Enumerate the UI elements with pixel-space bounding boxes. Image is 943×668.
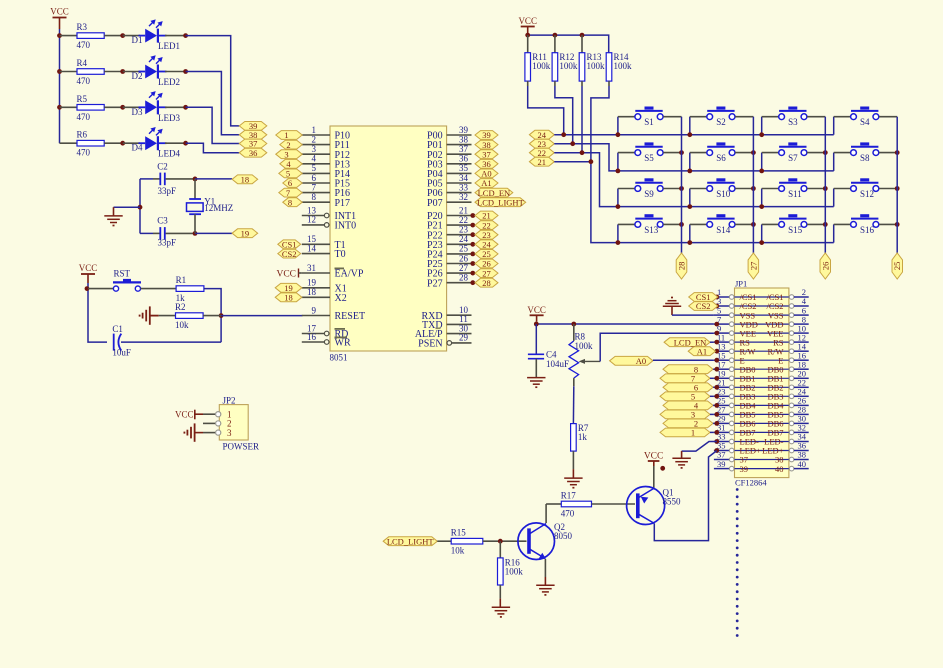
svg-text:S11: S11 <box>788 189 802 199</box>
svg-text:JP2: JP2 <box>223 395 236 405</box>
svg-text:S9: S9 <box>644 189 654 199</box>
svg-text:T0: T0 <box>335 249 346 260</box>
svg-text:100k: 100k <box>614 61 633 71</box>
svg-text:28: 28 <box>677 262 687 271</box>
svg-text:22: 22 <box>459 215 468 225</box>
svg-text:10k: 10k <box>451 546 465 556</box>
svg-text:P17: P17 <box>335 198 351 209</box>
svg-text:18: 18 <box>284 293 293 303</box>
svg-text:39: 39 <box>482 130 491 140</box>
svg-text:21: 21 <box>482 211 491 221</box>
svg-text:6: 6 <box>312 173 317 183</box>
svg-text:R15: R15 <box>451 528 467 538</box>
svg-text:35: 35 <box>459 163 469 173</box>
svg-text:39: 39 <box>459 125 469 135</box>
svg-text:C1: C1 <box>112 324 123 334</box>
svg-text:C2: C2 <box>157 162 168 172</box>
svg-text:S6: S6 <box>716 153 726 163</box>
svg-text:1: 1 <box>312 125 317 135</box>
svg-text:100k: 100k <box>532 61 551 71</box>
svg-text:24: 24 <box>459 234 469 244</box>
svg-text:R2: R2 <box>175 302 186 312</box>
svg-text:25: 25 <box>482 249 491 259</box>
svg-text:34: 34 <box>459 173 469 183</box>
svg-text:S10: S10 <box>716 189 731 199</box>
svg-text:100k: 100k <box>575 341 594 351</box>
svg-text:R3: R3 <box>77 22 88 32</box>
svg-text:CS2: CS2 <box>696 301 711 311</box>
svg-text:8550: 8550 <box>663 496 682 506</box>
svg-text:16: 16 <box>307 332 317 342</box>
svg-text:S15: S15 <box>788 225 803 235</box>
svg-text:27: 27 <box>748 262 758 271</box>
svg-text:A1: A1 <box>697 346 707 356</box>
svg-text:22: 22 <box>482 220 491 230</box>
svg-text:37: 37 <box>482 149 491 159</box>
svg-text:18: 18 <box>241 175 250 185</box>
svg-text:27: 27 <box>482 268 491 278</box>
svg-text:470: 470 <box>77 40 91 50</box>
svg-text:1: 1 <box>691 428 695 438</box>
svg-text:470: 470 <box>77 112 91 122</box>
svg-text:S16: S16 <box>860 225 875 235</box>
svg-text:24: 24 <box>482 240 491 250</box>
svg-text:D4: D4 <box>132 143 143 153</box>
svg-text:S13: S13 <box>644 225 659 235</box>
svg-text:WR: WR <box>335 338 351 349</box>
svg-text:33pF: 33pF <box>158 237 177 247</box>
svg-text:470: 470 <box>77 76 91 86</box>
svg-text:CF12864: CF12864 <box>735 478 767 488</box>
svg-text:36: 36 <box>459 154 469 164</box>
svg-text:7: 7 <box>286 188 290 198</box>
svg-text:32: 32 <box>459 192 468 202</box>
svg-text:VCC: VCC <box>50 7 69 17</box>
svg-text:X2: X2 <box>335 293 347 304</box>
svg-text:36: 36 <box>249 148 258 158</box>
svg-text:VCC: VCC <box>527 305 546 315</box>
svg-text:A0: A0 <box>636 356 646 366</box>
svg-text:LED2: LED2 <box>158 77 180 87</box>
svg-text:8050: 8050 <box>554 531 573 541</box>
svg-text:25: 25 <box>459 244 469 254</box>
svg-text:R17: R17 <box>561 491 577 501</box>
svg-text:VCC: VCC <box>644 452 664 462</box>
svg-text:19: 19 <box>284 283 293 293</box>
svg-text:C4: C4 <box>546 349 557 359</box>
svg-text:21: 21 <box>538 157 547 167</box>
svg-text:100k: 100k <box>505 566 524 576</box>
svg-text:31: 31 <box>307 263 316 273</box>
svg-text:S2: S2 <box>716 117 726 127</box>
svg-text:A1: A1 <box>481 178 491 188</box>
svg-text:10uF: 10uF <box>112 347 131 357</box>
svg-text:470: 470 <box>77 148 91 158</box>
svg-text:39: 39 <box>740 464 749 474</box>
svg-text:8051: 8051 <box>330 353 348 363</box>
svg-text:3: 3 <box>227 428 232 438</box>
svg-text:27: 27 <box>459 263 469 273</box>
svg-text:33: 33 <box>459 182 469 192</box>
svg-text:POWSER: POWSER <box>223 442 260 452</box>
svg-text:R4: R4 <box>77 58 88 68</box>
svg-text:PSEN: PSEN <box>418 339 442 350</box>
svg-text:D3: D3 <box>132 107 143 117</box>
svg-text:12MHZ: 12MHZ <box>204 203 233 213</box>
svg-text:19: 19 <box>307 278 317 288</box>
svg-text:CS2: CS2 <box>282 249 297 259</box>
svg-text:VCC: VCC <box>276 270 296 280</box>
svg-text:26: 26 <box>820 262 830 271</box>
svg-text:23: 23 <box>482 230 491 240</box>
svg-text:1: 1 <box>284 130 288 140</box>
svg-text:RST: RST <box>114 269 131 279</box>
svg-text:21: 21 <box>459 205 468 215</box>
svg-text:26: 26 <box>459 253 469 263</box>
svg-text:EA/VP: EA/VP <box>335 269 364 280</box>
svg-text:S7: S7 <box>788 153 798 163</box>
svg-text:40: 40 <box>798 459 807 469</box>
svg-text:LED1: LED1 <box>158 41 180 51</box>
svg-text:1k: 1k <box>578 432 588 442</box>
svg-text:33pF: 33pF <box>158 186 177 196</box>
svg-text:12: 12 <box>307 215 316 225</box>
svg-text:P27: P27 <box>427 278 443 289</box>
svg-text:5: 5 <box>312 163 317 173</box>
svg-text:LED4: LED4 <box>158 149 180 159</box>
svg-text:LCD_EN: LCD_EN <box>478 188 511 198</box>
svg-text:D1: D1 <box>132 35 143 45</box>
svg-text:104uF: 104uF <box>546 359 569 369</box>
svg-text:S3: S3 <box>788 117 798 127</box>
svg-text:39: 39 <box>717 459 726 469</box>
svg-text:S1: S1 <box>644 117 654 127</box>
svg-text:25: 25 <box>892 262 902 271</box>
svg-text:7: 7 <box>312 182 317 192</box>
svg-text:23: 23 <box>459 225 469 235</box>
svg-text:26: 26 <box>482 259 491 269</box>
svg-text:28: 28 <box>459 273 469 283</box>
svg-text:100k: 100k <box>587 61 606 71</box>
svg-text:40: 40 <box>775 464 784 474</box>
svg-text:2: 2 <box>312 134 317 144</box>
svg-text:3: 3 <box>312 144 317 154</box>
svg-text:10k: 10k <box>175 320 189 330</box>
svg-text:S8: S8 <box>860 153 870 163</box>
svg-text:RESET: RESET <box>335 311 366 322</box>
svg-text:36: 36 <box>482 159 491 169</box>
svg-text:18: 18 <box>307 287 317 297</box>
svg-text:29: 29 <box>459 333 469 343</box>
svg-text:R1: R1 <box>176 275 187 285</box>
svg-text:28: 28 <box>482 278 491 288</box>
svg-text:38: 38 <box>482 140 491 150</box>
svg-text:VCC: VCC <box>175 409 194 419</box>
svg-text:LCD_LIGHT: LCD_LIGHT <box>477 197 525 207</box>
svg-text:4: 4 <box>312 154 317 164</box>
svg-text:JP1: JP1 <box>735 279 747 289</box>
svg-text:8: 8 <box>288 197 292 207</box>
svg-text:R6: R6 <box>77 130 88 140</box>
svg-text:S5: S5 <box>644 153 654 163</box>
svg-text:100k: 100k <box>559 61 578 71</box>
svg-text:LED3: LED3 <box>158 113 180 123</box>
svg-text:VCC: VCC <box>79 263 98 273</box>
svg-text:3: 3 <box>284 149 288 159</box>
svg-text:6: 6 <box>288 178 292 188</box>
svg-text:D2: D2 <box>132 71 143 81</box>
svg-text:38: 38 <box>459 134 469 144</box>
svg-text:LCD_LIGHT: LCD_LIGHT <box>387 536 435 546</box>
svg-text:A0: A0 <box>481 169 491 179</box>
svg-text:INT0: INT0 <box>335 221 357 232</box>
svg-text:14: 14 <box>307 243 317 253</box>
svg-text:S12: S12 <box>860 189 874 199</box>
svg-text:9: 9 <box>312 305 317 315</box>
svg-text:5: 5 <box>286 169 290 179</box>
svg-text:8: 8 <box>312 192 317 202</box>
svg-text:19: 19 <box>241 228 250 238</box>
svg-text:S14: S14 <box>716 225 731 235</box>
svg-text:P07: P07 <box>427 198 443 209</box>
svg-text:VCC: VCC <box>518 16 537 26</box>
svg-text:R5: R5 <box>77 94 88 104</box>
svg-text:S4: S4 <box>860 117 870 127</box>
svg-text:2: 2 <box>286 140 290 150</box>
svg-text:C3: C3 <box>157 216 168 226</box>
svg-text:470: 470 <box>561 509 575 519</box>
svg-text:37: 37 <box>459 144 469 154</box>
